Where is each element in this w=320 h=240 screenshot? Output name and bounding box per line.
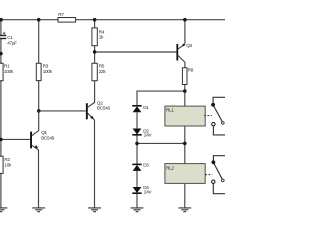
svg-text:BC546: BC546 — [97, 106, 111, 111]
wire RL2 bottom to ground — [184, 183, 186, 208]
dashed link RL2 to switch — [205, 174, 212, 176]
node rail-R4 junction — [93, 18, 97, 22]
resistor R7 — [58, 12, 76, 22]
switch SW1 (RL1 contacts) — [211, 97, 225, 135]
wire D2 to mid node — [136, 134, 138, 143]
node R3-Q1 collector junction — [37, 109, 41, 113]
node R8-D1 junction — [183, 89, 187, 93]
svg-text:47µF: 47µF — [7, 41, 17, 46]
svg-text:10k: 10k — [4, 163, 12, 168]
resistor R8 — [182, 67, 193, 84]
resistor R4 — [92, 28, 105, 46]
svg-text:R7: R7 — [58, 12, 64, 17]
ground (D4) — [131, 208, 144, 212]
resistor R2 — [0, 156, 12, 173]
svg-text:BC549: BC549 — [41, 136, 55, 141]
svg-text:R2: R2 — [4, 157, 10, 162]
wire R4 to node — [94, 46, 96, 52]
node C1-R1 junction — [0, 52, 3, 56]
node RL1-RL2 junction — [183, 142, 187, 146]
wire RL1 bottom to mid node — [184, 126, 186, 164]
transistor Q1 — [30, 111, 55, 208]
wire mid node to D3 — [136, 143, 138, 164]
wire Q3 collector to R8 — [184, 62, 186, 68]
ground (left R2) — [0, 208, 7, 212]
svg-text:RL1: RL1 — [166, 108, 174, 113]
wire top supply rail — [1, 19, 225, 21]
svg-text:Q3: Q3 — [186, 43, 192, 48]
svg-text:R4: R4 — [99, 29, 105, 34]
wire node to Q3 base — [95, 51, 177, 53]
svg-text:R3: R3 — [43, 64, 49, 69]
svg-text:RL2: RL2 — [166, 165, 174, 170]
node R4-Q3 base junction — [93, 50, 97, 54]
svg-text:R1: R1 — [4, 64, 10, 69]
wire node to R5 — [94, 52, 96, 63]
svg-text:100k: 100k — [4, 69, 14, 74]
wire mid node horizontal — [137, 142, 185, 144]
wire rail to R3 — [38, 20, 40, 64]
resistor R1 — [0, 63, 14, 80]
resistor R3 — [36, 63, 52, 80]
wire R1 to R2 — [0, 81, 2, 157]
wire R2 to ground — [0, 173, 2, 208]
ground (RL2) — [178, 208, 191, 212]
diode D2 24V — [132, 129, 152, 138]
svg-text:D1: D1 — [143, 105, 149, 110]
wire R8 to relay node — [184, 85, 186, 107]
svg-text:Q2: Q2 — [97, 100, 103, 105]
svg-text:24V: 24V — [144, 133, 153, 138]
capacitor C1 — [0, 32, 17, 46]
transistor Q3 — [176, 43, 192, 62]
relay coil RL1 — [165, 106, 205, 126]
diode D1 — [132, 105, 149, 112]
wire rail to R4 — [94, 20, 96, 28]
wire R3 to node below — [38, 81, 40, 111]
svg-text:R5: R5 — [99, 64, 105, 69]
wire node to diode chain top — [137, 91, 185, 106]
node D2-D3 junction — [135, 142, 139, 146]
ground (Q1 emitter) — [32, 208, 45, 212]
diode D3 — [132, 163, 149, 171]
node A rail-left junction — [0, 18, 3, 22]
ground (Q2 emitter) — [88, 208, 101, 212]
svg-text:100k: 100k — [43, 69, 53, 74]
wire Q3 emitter vertical — [184, 20, 186, 45]
svg-text:24V: 24V — [144, 190, 153, 195]
svg-text:R8: R8 — [188, 67, 194, 72]
wire D3 to D4 — [136, 170, 138, 187]
diode D4 24V — [132, 185, 152, 194]
node Q1 base junction — [0, 138, 3, 142]
resistor R5 — [92, 63, 106, 80]
svg-text:D3: D3 — [143, 163, 149, 168]
wire D1 to D2 — [136, 112, 138, 128]
svg-text:Q1: Q1 — [41, 130, 47, 135]
svg-text:22k: 22k — [99, 69, 107, 74]
wire Q1 base — [1, 138, 30, 140]
svg-text:C1: C1 — [7, 35, 13, 40]
transistor Q2 — [86, 81, 111, 208]
wire left branch rail to C1 — [0, 20, 2, 36]
dashed link RL1 to switch — [204, 115, 212, 117]
wire Q2 base — [39, 110, 86, 112]
relay coil RL2 — [165, 164, 205, 184]
node rail-Q3 junction — [183, 18, 187, 22]
wire C1 to R1 — [0, 39, 2, 64]
node rail-R3 junction — [37, 18, 41, 22]
wire D4 to ground — [136, 193, 138, 208]
switch SW2 (RL2 contacts) — [212, 156, 226, 194]
